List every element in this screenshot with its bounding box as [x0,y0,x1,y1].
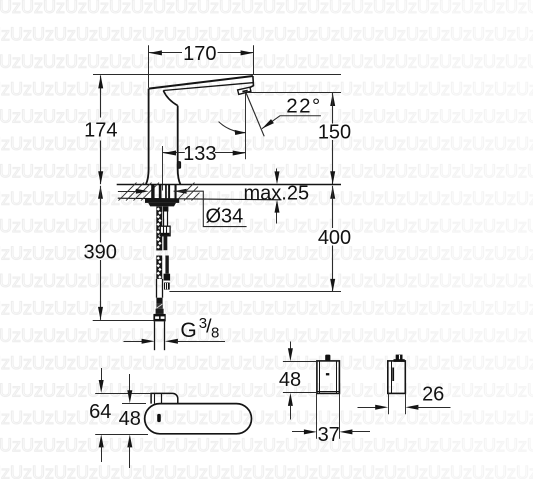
dim 26 extension lines [388,393,390,414]
svg-text:Ø34: Ø34 [206,205,244,227]
svg-text:max.25: max.25 [244,183,310,205]
dim 390 line upper [100,186,102,243]
svg-text:48: 48 [119,408,141,430]
dim 390 arrow up [98,186,103,199]
dim 133 arrow left [163,151,176,156]
angle arc arrowhead [235,130,246,135]
svg-text:150: 150 [318,122,351,144]
sensor window on column [177,162,180,169]
dim 170 arrow right [241,50,254,55]
dim 170 right extension line [253,45,255,75]
dim 34 arrow left [118,191,137,193]
rod end white band [164,281,170,283]
faucet underside seam [163,83,252,91]
G38 dim left arrow [124,341,146,343]
dim 48p arrow bottom [127,434,132,447]
dim 133 left extension line [162,146,164,191]
plan view body outline [145,404,252,434]
dim 34 leader [174,191,247,226]
dim 400 arrow down [330,279,335,292]
pull rod upper block [163,207,169,212]
dim 174 arrow down [98,171,103,184]
angle arc 22deg [219,122,246,133]
rod nut [160,226,170,236]
rod lower [165,256,168,274]
dim 170 arrow left [149,50,162,55]
aerator reference line [248,92,342,94]
power box side cap [396,355,403,361]
mousseur slit [242,90,247,91]
svg-text:37: 37 [318,424,340,446]
dim 150 arrow down [330,171,335,184]
faucet left edge [146,89,149,185]
svg-text:26: 26 [422,384,444,406]
dim 26 arrow right [405,405,418,410]
shank stripes [151,185,154,199]
dim 170 line right part [218,52,254,54]
power box side clip [392,368,394,382]
mounting flange bar [145,199,179,203]
power box front outline [317,361,340,394]
power box side inner wall [391,361,393,394]
rod end striped fitting [164,283,170,290]
dim 150 line lower [332,140,334,184]
mounting nut [148,203,176,207]
dim 48p arrow top [129,374,131,392]
dim 170 left extension line [148,45,150,88]
dim 64 arrow top [101,368,103,382]
max25 arrow bottom [276,204,278,224]
dim 48 box arrow bottom [288,393,293,406]
dim 390 line lower [100,260,102,320]
dim 174 line lower [100,141,102,185]
label 22deg leader arrowhead [262,119,274,129]
max25 arrow top [276,169,278,181]
power box led window [326,373,329,375]
plan sensor window [157,414,161,422]
braided hose lower section [156,256,162,279]
G38 connection nut [153,314,165,322]
mousseur outlet [238,87,251,94]
dim 37 arrow left [292,431,305,433]
dim 133 line right part [215,152,246,154]
counter bottom line [118,198,282,200]
power box button [325,355,330,361]
counter hatch left [119,183,137,201]
hose crimp section [156,304,162,309]
svg-text:133: 133 [183,143,216,165]
dim 390 bottom extension line [93,320,154,322]
dim 64 arrow bottom [99,434,104,447]
braided hose upper section [156,207,162,251]
dim 133 right extension line [245,93,247,159]
svg-text:400: 400 [318,227,351,249]
plan view sensor housing tab [151,393,178,403]
hose plain section [156,279,158,298]
svg-text:170: 170 [183,43,216,65]
dim 34 arrow right [174,189,187,194]
dim 150 line upper [332,93,334,124]
svg-text:48: 48 [279,369,301,391]
plan tab divider [161,393,163,403]
faucet underside fillet curve [163,91,177,106]
hose sleeve dark [156,298,162,304]
dim 400 line upper [332,186,334,228]
faucet column right edge [178,106,181,185]
G38 dim right arrow [165,339,178,344]
svg-text:64: 64 [89,401,111,423]
dim 64 top extension [95,393,151,395]
dim 174 line upper [100,75,102,117]
dim 48 box arrow top [290,342,292,350]
pull rod middle [164,236,168,250]
svg-text:174: 174 [84,119,117,141]
dim 26 arrow left [358,407,378,409]
dim 48 box bottom extension [283,392,317,394]
power box front inner walls [319,361,321,394]
pull rod upper [163,212,165,227]
dim 133 line left part [163,152,185,154]
hose end reference line [169,291,341,293]
dim 390 arrow down [98,307,103,320]
top reference line y=74.9 [93,74,341,76]
dim 150 arrow up [330,93,335,106]
dim 400 line lower [332,246,334,292]
plan bottom extension [95,434,148,436]
counter top line [117,184,341,186]
dim 37 extension lines [316,393,318,438]
spray direction line [246,93,264,136]
power box side outline [388,361,406,394]
rod end cap [164,274,171,281]
dim 400 arrow up [330,186,335,199]
dim 174 arrow up [98,75,103,88]
counter hatch right [177,183,195,201]
faucet tip face [250,76,254,88]
dim 170 line left part [149,52,182,54]
label 22deg leader [262,116,321,129]
dim 133 arrow right [233,151,246,156]
dim 48 box top extension [283,361,317,363]
faucet top edge [149,76,253,89]
hose end fitting [156,309,164,314]
G38 pipe [154,321,156,350]
dim 48p top extension [122,403,146,405]
svg-text:22°: 22° [286,94,322,117]
dim 37 arrow right [339,429,352,434]
